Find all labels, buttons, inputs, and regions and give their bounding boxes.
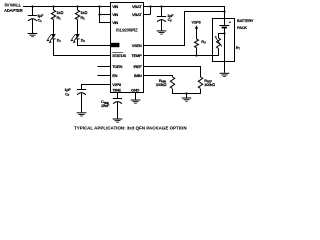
wire GND pin drop [135, 93, 137, 100]
wire TIME pin drop [117, 93, 119, 99]
svg-text:VIN: VIN [112, 20, 118, 25]
pin STATUS with overline [112, 53, 126, 58]
wire VIN2 stub [100, 14, 111, 16]
wire IREF to Rref [144, 67, 201, 78]
capacitor C2 value label [167, 13, 174, 23]
wire IMIN to Rmin [144, 76, 173, 78]
ground for Rmin Rref [182, 98, 192, 102]
wire D1 to STATUS pin [54, 39, 111, 56]
svg-text:V2P8: V2P8 [112, 82, 122, 87]
svg-text:TOEN: TOEN [112, 64, 122, 69]
wire battery pack to ground [224, 62, 226, 73]
svg-text:C2: C2 [168, 17, 173, 23]
wire TOEN stub [98, 66, 111, 68]
pin FAULT inverted pill [111, 43, 120, 48]
wire VIN tap vertical [100, 7, 111, 23]
capacitor C3 value label [65, 87, 72, 97]
wire top rail right to battery [151, 7, 225, 26]
wire C3 to ground [81, 93, 83, 112]
svg-text:STATUS: STATUS [112, 53, 126, 58]
resistor R1 zigzag [51, 10, 55, 20]
svg-text:V2P8: V2P8 [192, 20, 202, 25]
wire R2 to D2 [77, 20, 79, 35]
svg-text:BATTERY: BATTERY [237, 18, 254, 23]
wire C2 to ground [161, 20, 163, 30]
ground for battery pack [220, 73, 230, 77]
svg-text:100kΩ: 100kΩ [204, 82, 215, 87]
capacitor Ctime plates [113, 99, 122, 104]
wire D2 to FAULT pin [78, 39, 111, 46]
svg-text:R1: R1 [57, 15, 62, 21]
svg-text:GND: GND [131, 87, 139, 92]
svg-text:TYPICAL APPLICATION: 3x3 QFN P: TYPICAL APPLICATION: 3x3 QFN PACKAGE OPT… [74, 126, 187, 131]
resistor R1 value label [57, 10, 64, 20]
svg-text:VBAT: VBAT [132, 12, 142, 17]
LED D2 [70, 34, 80, 43]
node 5V wall adapter label [4, 3, 23, 13]
svg-text:VBAT: VBAT [132, 4, 142, 9]
svg-text:IREF: IREF [134, 64, 143, 69]
svg-text:5V WALL: 5V WALL [5, 3, 22, 8]
wire C1 drop [32, 7, 34, 16]
svg-text:C1: C1 [38, 17, 43, 23]
resistor R2 zigzag [75, 10, 79, 20]
resistor Rmin zigzag [170, 77, 174, 88]
svg-text:RT: RT [236, 45, 241, 51]
wire battery minus [224, 28, 226, 62]
ground for IC GND pin [131, 100, 141, 104]
wire VSEN route to battery plus [144, 12, 225, 46]
svg-text:EN: EN [112, 73, 117, 78]
battery cell [219, 20, 231, 28]
ground for Ctime [113, 119, 123, 123]
ground for C2 [157, 30, 167, 34]
svg-text:RU: RU [201, 39, 206, 45]
wire Ctime to ground [117, 102, 119, 119]
resistor Rref zigzag [198, 77, 202, 88]
svg-text:TIME: TIME [113, 87, 122, 92]
svg-text:VIN: VIN [112, 4, 118, 9]
svg-text:TEMP: TEMP [132, 53, 143, 58]
wire Ru bottom [196, 48, 198, 56]
wire top rail left [23, 6, 111, 8]
svg-text:VSEN: VSEN [132, 43, 142, 48]
wire VBAT stub 1 [144, 6, 151, 8]
resistor R2 value label [81, 10, 88, 20]
node V2P8 net label with arrow [192, 20, 202, 31]
svg-text:FAULT: FAULT [111, 44, 119, 48]
capacitor C3 plates [77, 90, 86, 95]
resistor Ru zigzag [195, 39, 199, 48]
thermistor RT arrow [215, 36, 222, 47]
wire thermistor top jog [219, 34, 225, 39]
wire VBAT join vertical [150, 7, 152, 15]
wire ground tap Rmin Rref [186, 94, 188, 98]
svg-text:100kΩ: 100kΩ [156, 82, 167, 87]
capacitor C1 value label [37, 13, 44, 23]
wire R2 top [77, 7, 79, 11]
ground for C3 [77, 112, 87, 116]
wire TEMP to thermistor [144, 49, 219, 56]
wire V2P8 pin to C3 [82, 85, 111, 90]
svg-text:PACK: PACK [237, 25, 247, 30]
ground for C1 [28, 33, 38, 37]
wire C2 drop [161, 7, 163, 17]
svg-text:IMIN: IMIN [134, 73, 142, 78]
node battery pack label [237, 18, 254, 30]
svg-text:VIN: VIN [112, 12, 118, 17]
op IC ISL9205IRZ box [111, 3, 144, 93]
wire VBAT stub 2 [144, 14, 151, 16]
svg-text:R2: R2 [81, 15, 86, 21]
LED D1 [46, 34, 56, 43]
thermistor RT zigzag [217, 38, 221, 48]
junction dots [31, 5, 225, 94]
resistor Rref label [204, 78, 215, 87]
capacitor C2 plates [157, 17, 166, 22]
svg-text:C3: C3 [65, 91, 70, 97]
capacitor C1 plates [28, 16, 37, 21]
capacitor Ctime value label [101, 99, 110, 108]
wire C1 to ground [32, 19, 34, 33]
wire EN stub [98, 75, 111, 77]
svg-text:ADAPTER: ADAPTER [4, 8, 23, 13]
svg-text:D1: D1 [57, 37, 62, 43]
wire resistor bottoms rail [173, 89, 201, 94]
resistor Rmin label [156, 78, 167, 87]
wire R1 to D1 [53, 20, 55, 35]
svg-text:ISL9205IRZ: ISL9205IRZ [116, 28, 138, 33]
wire Ru pullup vertical [196, 28, 198, 40]
battery pack box [213, 19, 235, 62]
svg-text:D2: D2 [81, 37, 86, 43]
wire R1 top [53, 7, 55, 11]
svg-text:15nF: 15nF [101, 103, 110, 108]
